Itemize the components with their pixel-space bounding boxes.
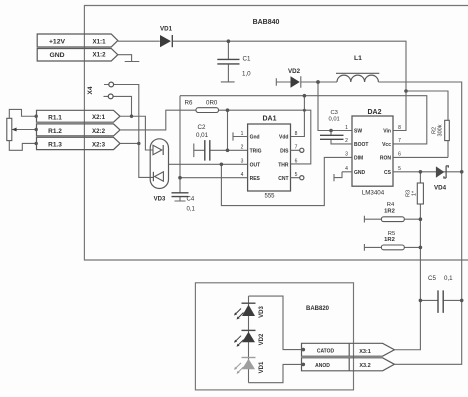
svg-text:Gnd: Gnd	[250, 135, 260, 141]
svg-text:X2:1: X2:1	[92, 114, 106, 121]
svg-text:GND: GND	[49, 52, 64, 59]
svg-text:C4: C4	[187, 196, 195, 202]
svg-text:0,1: 0,1	[187, 206, 196, 212]
svg-text:2: 2	[241, 145, 244, 151]
svg-text:C3: C3	[331, 110, 338, 116]
svg-text:BOOT: BOOT	[354, 142, 368, 148]
svg-text:8: 8	[295, 131, 298, 137]
svg-text:DA2: DA2	[367, 109, 381, 116]
svg-text:Vcc: Vcc	[382, 142, 391, 148]
svg-text:1R2: 1R2	[384, 237, 395, 243]
svg-text:GND: GND	[354, 170, 366, 176]
svg-text:L1: L1	[354, 55, 362, 62]
svg-text:DIM: DIM	[354, 156, 363, 162]
svg-text:THR: THR	[278, 162, 289, 168]
svg-text:CATOD: CATOD	[317, 349, 335, 355]
svg-text:0,1: 0,1	[444, 275, 453, 282]
svg-text:R1.3: R1.3	[48, 142, 62, 149]
svg-text:OUT: OUT	[250, 162, 261, 168]
svg-text:0R0: 0R0	[206, 100, 218, 107]
svg-text:RES: RES	[250, 176, 261, 182]
svg-text:1: 1	[345, 125, 348, 131]
svg-text:X2:3: X2:3	[92, 141, 106, 148]
svg-text:0,01: 0,01	[329, 116, 340, 122]
svg-text:1,0: 1,0	[242, 71, 251, 78]
svg-text:4: 4	[241, 172, 244, 178]
svg-text:2: 2	[345, 138, 348, 144]
svg-text:1*: 1*	[412, 190, 418, 196]
svg-text:3: 3	[345, 152, 348, 158]
svg-text:6: 6	[398, 152, 401, 158]
svg-text:LM3404: LM3404	[362, 190, 385, 197]
svg-text:VD1: VD1	[160, 26, 173, 33]
svg-text:X2:2: X2:2	[92, 128, 106, 135]
svg-text:5: 5	[398, 166, 401, 172]
svg-text:VD1: VD1	[259, 361, 265, 373]
svg-text:R5: R5	[388, 231, 395, 237]
svg-text:VD3: VD3	[259, 306, 265, 318]
svg-text:7: 7	[398, 138, 401, 144]
svg-text:BAB820: BAB820	[306, 306, 330, 312]
svg-text:1: 1	[241, 131, 244, 137]
svg-text:X4: X4	[87, 86, 94, 94]
svg-text:R4: R4	[387, 202, 395, 208]
svg-text:DA1: DA1	[262, 116, 276, 123]
svg-text:555: 555	[264, 194, 275, 200]
svg-text:VD4: VD4	[434, 185, 447, 192]
svg-text:BAB840: BAB840	[253, 19, 280, 26]
svg-text:C1: C1	[243, 56, 251, 63]
svg-text:+12V: +12V	[49, 39, 66, 46]
svg-text:X3:1: X3:1	[359, 349, 371, 355]
svg-text:TRIG: TRIG	[250, 148, 262, 154]
svg-text:3: 3	[241, 159, 244, 165]
svg-text:X1:2: X1:2	[92, 52, 106, 59]
svg-text:6: 6	[295, 159, 298, 165]
svg-text:X3.2: X3.2	[359, 363, 370, 369]
svg-text:Vin: Vin	[383, 129, 391, 135]
svg-text:R6: R6	[185, 100, 193, 107]
svg-text:C2: C2	[198, 124, 206, 131]
svg-text:RON: RON	[380, 156, 392, 162]
svg-text:CNT: CNT	[278, 176, 288, 182]
svg-text:CS: CS	[384, 170, 392, 176]
svg-text:X1:1: X1:1	[92, 38, 106, 45]
svg-text:ANOD: ANOD	[315, 363, 330, 369]
svg-text:5: 5	[295, 172, 298, 178]
svg-text:Vdd: Vdd	[279, 135, 288, 141]
svg-text:VD2: VD2	[288, 68, 301, 75]
svg-text:7: 7	[295, 145, 298, 151]
svg-text:0,01: 0,01	[196, 132, 209, 139]
svg-text:8: 8	[398, 125, 401, 131]
svg-text:4: 4	[345, 166, 348, 172]
svg-text:1R2: 1R2	[384, 208, 395, 214]
svg-text:C5: C5	[428, 275, 436, 282]
svg-text:VD3: VD3	[154, 197, 166, 203]
svg-text:VD2: VD2	[259, 333, 265, 345]
svg-text:SW: SW	[354, 129, 362, 135]
svg-text:R1.1: R1.1	[48, 114, 62, 121]
svg-text:DIS: DIS	[280, 148, 289, 154]
svg-text:300k: 300k	[438, 124, 444, 136]
svg-text:R1.2: R1.2	[48, 128, 62, 135]
